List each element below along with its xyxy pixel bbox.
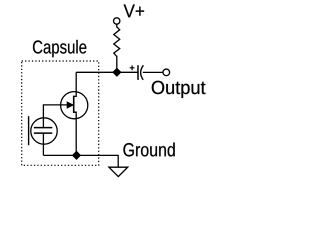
capsule enclosure (dashed box) <box>22 61 99 165</box>
capacitor C1 polarity + <box>130 65 135 70</box>
wire V+ to resistor <box>116 24 118 27</box>
resistor R1 <box>114 27 120 57</box>
Capsule label <box>33 40 86 57</box>
wire capacitor to output terminal <box>143 71 163 73</box>
wire drain corner to capacitor <box>76 71 137 73</box>
V+ terminal <box>114 18 120 24</box>
wire resistor to node <box>116 56 118 73</box>
ground <box>109 167 128 176</box>
Output label <box>152 81 206 98</box>
electret element (capsule mic) <box>29 116 58 145</box>
Ground label <box>123 143 174 157</box>
node junction at source/ground rail <box>73 151 81 159</box>
wire electret bottom lead <box>42 133 44 155</box>
V+ label <box>124 5 144 18</box>
wire bottom rail to ground <box>43 155 118 167</box>
wire electret gate to transistor <box>43 105 67 128</box>
node junction at resistor/output <box>113 68 121 76</box>
capacitor C1 <box>138 65 143 80</box>
Output terminal <box>163 69 170 76</box>
transistor Q1 (JFET) <box>61 72 88 155</box>
